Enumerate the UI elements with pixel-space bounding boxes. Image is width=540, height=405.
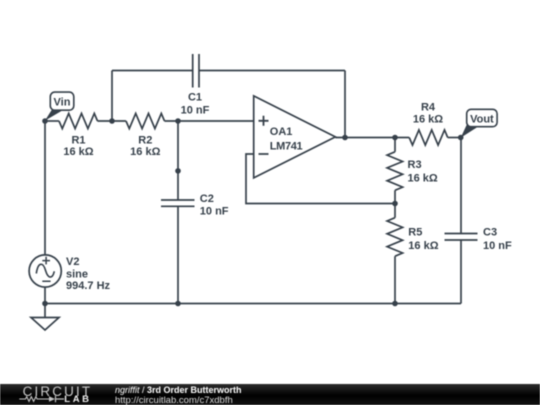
svg-text:16 kΩ: 16 kΩ [130,146,160,158]
svg-text:R1: R1 [71,135,85,147]
wire C2 branch down [177,121,179,200]
node C1 branch [109,118,115,124]
svg-text:R4: R4 [421,101,436,113]
node rail R5 [392,301,398,307]
footer bar [0,384,540,405]
svg-text:994.7 Hz: 994.7 Hz [66,280,111,292]
svg-text:R2: R2 [138,135,152,147]
svg-text:Vout: Vout [470,113,494,125]
node op-amp output [342,135,348,141]
wire feedback down to output node [344,71,346,138]
node C2 wire joint [175,168,181,174]
svg-text:16 kΩ: 16 kΩ [408,240,438,252]
label R2 16 kΩ [130,135,160,159]
wire output row to R4 [335,137,409,139]
label V2 sine 994.7 Hz [66,256,111,292]
svg-text:V2: V2 [66,256,79,268]
capacitor C1 [193,54,199,88]
CircuitLab logo [23,384,93,399]
wire Vin node down to V2 [44,121,46,255]
wire R5 bottom to rail [394,256,396,303]
node rail C2 [175,301,181,307]
label C1 10 nF [181,92,210,117]
svg-text:10 nF: 10 nF [483,240,512,252]
resistor R5 [387,218,403,257]
wire C1 branch up [111,71,113,122]
voltage source V2 [29,255,61,287]
wire V2 bottom to rail [44,287,46,304]
svg-text:C1: C1 [188,92,202,104]
label C2 10 nF [200,193,229,218]
footer title [115,385,242,395]
wire R2 to op-amp + input [165,120,254,122]
label OA1 LM741 [270,126,303,152]
svg-text:LM741: LM741 [270,141,303,153]
svg-text:R3: R3 [408,159,422,171]
node C2 branch [175,118,181,124]
svg-text:C3: C3 [483,227,497,239]
svg-text:10 nF: 10 nF [181,105,210,117]
resistor R3 [387,152,403,191]
resistor R4 [409,130,448,145]
svg-text:C2: C2 [200,193,214,205]
wire op-amp minus feedback [246,154,395,204]
wire R3 bottom lead [394,190,396,203]
footer url [115,395,233,405]
svg-text:16 kΩ: 16 kΩ [408,173,438,185]
wire Vout branch lower [460,240,462,304]
svg-text:16 kΩ: 16 kΩ [63,146,93,158]
wire R5 top lead [394,204,396,218]
resistor R2 [126,113,165,128]
wire input row: Vin node to R1 [45,120,59,122]
label C3 10 nF [483,227,512,252]
wire top row left of C1 [112,70,193,72]
ground [31,304,59,331]
svg-text:R5: R5 [408,227,422,239]
node Vout flag [461,109,497,137]
node Vin flag [45,92,74,121]
node R3 top [392,135,398,141]
wire R4 to Vout node [448,137,461,139]
svg-text:10 nF: 10 nF [200,205,229,217]
label R5 16 kΩ [408,227,438,252]
svg-text:Vin: Vin [54,96,71,108]
capacitor C3 [445,234,478,241]
wire C2 bottom to ground rail [177,206,179,303]
node rail V2 [42,301,48,307]
label R3 16 kΩ [408,159,438,185]
op-amp U1 triangle [254,96,336,178]
node Vout [458,135,464,141]
wire R1 to R2 [98,120,127,122]
svg-text:16 kΩ: 16 kΩ [413,114,443,126]
capacitor C2 [161,200,195,206]
resistor R1 [59,113,98,128]
svg-text:OA1: OA1 [270,126,293,138]
label R4 16 kΩ [413,101,443,125]
wire ground rail [45,303,461,305]
label R1 16 kΩ [63,135,93,159]
svg-text:sine: sine [66,268,88,280]
node R3 R5 feedback junction [392,201,398,207]
wire top row right of C1 [199,70,345,72]
node Vin junction [42,118,48,124]
wire Vout branch upper [460,138,462,234]
wire R3 top lead [394,138,396,152]
